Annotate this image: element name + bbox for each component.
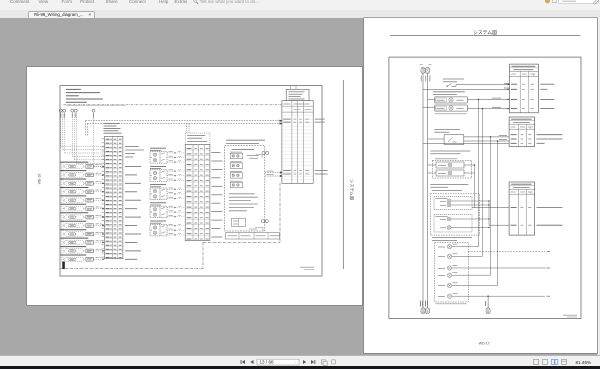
svg-text:WD-16: WD-16 (37, 174, 41, 185)
svg-text:81.46%: 81.46% (576, 359, 592, 364)
svg-text:システム図: システム図 (473, 30, 497, 36)
svg-text:WD-17: WD-17 (478, 341, 489, 345)
svg-text:13 / 68: 13 / 68 (260, 359, 274, 364)
